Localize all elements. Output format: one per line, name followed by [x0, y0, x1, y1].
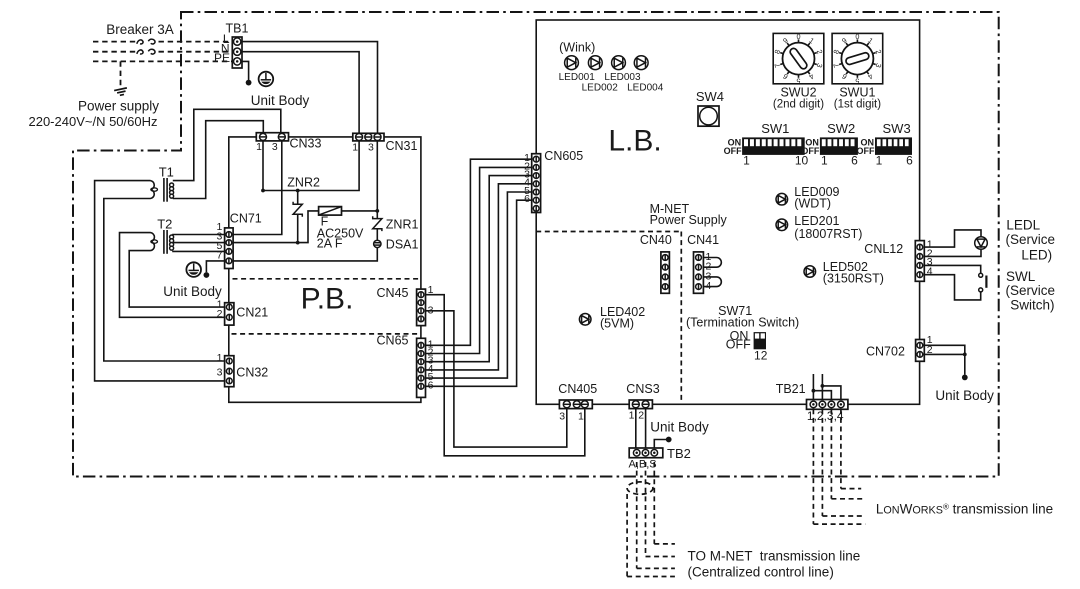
unit boundary (dash-dot border) [73, 12, 999, 477]
svg-text:SW2: SW2 [827, 121, 855, 136]
wire T2 primary bottom to CN21 pin1 [129, 251, 224, 308]
connector CN33 [256, 133, 288, 141]
svg-text:(3150RST): (3150RST) [823, 272, 884, 286]
connector CN405 [559, 400, 592, 409]
svg-text:CN405: CN405 [558, 382, 597, 396]
LonWorks transmission lines (dashed) [812, 409, 814, 524]
svg-text:1: 1 [629, 410, 635, 422]
connector CN45 [417, 289, 426, 326]
varistor ZNR2 [297, 191, 299, 204]
power line N (dashed) [93, 51, 137, 53]
svg-text:5: 5 [855, 76, 859, 85]
svg-text:6: 6 [428, 379, 434, 391]
svg-text:SWU2: SWU2 [780, 85, 816, 99]
terminal block TB1 [232, 37, 242, 68]
svg-text:(Service: (Service [1006, 283, 1056, 298]
svg-text:ZNR1: ZNR1 [386, 217, 419, 231]
svg-text:(Centralized control line): (Centralized control line) [688, 565, 834, 580]
svg-text:(Wink): (Wink) [559, 41, 595, 55]
svg-text:CN21: CN21 [236, 306, 268, 320]
svg-text:CN32: CN32 [236, 366, 268, 380]
wire CN33 pin1 down to node A [262, 141, 264, 191]
wire CN31 pin5 down through ZNR1 DSA1 to CN71 pin7 [376, 141, 378, 218]
svg-text:OFF: OFF [724, 146, 742, 156]
svg-text:SW3: SW3 [883, 121, 911, 136]
transformer T1 [151, 181, 155, 199]
svg-text:4: 4 [706, 280, 712, 292]
svg-text:7: 7 [216, 249, 222, 261]
service switch SWL symbol [979, 273, 983, 277]
svg-text:CN40: CN40 [640, 233, 672, 247]
svg-text:(WDT): (WDT) [794, 196, 831, 210]
LED003 [612, 56, 626, 70]
svg-text:Breaker 3A: Breaker 3A [106, 22, 174, 37]
svg-text:1: 1 [217, 352, 223, 364]
wire TB21 pin2 bridge to pin4 [821, 374, 823, 401]
connector CN21 [225, 303, 234, 325]
svg-text:Power Supply: Power Supply [650, 213, 728, 227]
wire CN702 pin1 [924, 345, 965, 354]
LED004 [634, 56, 648, 70]
svg-text:1: 1 [743, 153, 750, 167]
wire bundle CN65 pins 1-6 to CN605 pins 1-6 [426, 159, 532, 345]
svg-text:Power supply: Power supply [78, 98, 159, 113]
wire T1 primary bottom to CN32 pin1 [104, 199, 225, 362]
L.B. board outline [536, 20, 919, 404]
wire TB21 pin1 bridge to pin3 [812, 374, 814, 401]
svg-text:LEDL: LEDL [1006, 218, 1040, 233]
svg-text:CNS3: CNS3 [626, 382, 659, 396]
svg-text:L.B.: L.B. [608, 125, 661, 158]
svg-text:P.B.: P.B. [301, 283, 354, 316]
svg-text:5: 5 [796, 76, 800, 85]
svg-text:OFF: OFF [857, 146, 875, 156]
power line L (dashed) [93, 41, 137, 43]
wire node A to CN31 pin1 (ZNR2 bus) [263, 141, 359, 191]
svg-text:CN65: CN65 [377, 333, 409, 347]
protective earth symbol (CN71) [186, 262, 201, 277]
svg-text:(18007RST): (18007RST) [794, 227, 862, 241]
power supply ground symbol [114, 88, 128, 96]
svg-text:3: 3 [559, 410, 565, 422]
wire CN71 pin7 to unit body [206, 261, 224, 272]
LED502 (3150RST) [804, 266, 816, 278]
junction (CN702) [963, 353, 967, 357]
chassis dot (TB1 PE) [246, 80, 252, 86]
svg-text:A,B,S: A,B,S [629, 459, 657, 471]
wire T1 secondary top to CN33 pin3 [173, 109, 281, 180]
wire fuse to ZNR1/DSA1 node [342, 210, 378, 212]
chassis dot (CN71) [204, 272, 210, 278]
connector CN65 [417, 338, 426, 397]
svg-text:CN31: CN31 [386, 139, 418, 153]
svg-text:1: 1 [352, 142, 358, 154]
wire CNL12 pin3 to SWL [924, 265, 980, 273]
wire T1 secondary bottom to CN33 pin1 [173, 121, 263, 199]
wire CN45 pin3 to CN405 pin3 [426, 311, 567, 447]
junction dots TB21 [812, 389, 816, 393]
DIP switch SW1 [742, 137, 805, 155]
junction node C (ZNR2 bottom) [296, 241, 300, 245]
svg-text:LED201: LED201 [794, 214, 839, 228]
DIP switch SW3 [875, 137, 912, 155]
LED201 (18007RST) [776, 219, 788, 231]
svg-text:Unit Body: Unit Body [935, 388, 994, 403]
power line PE (dashed) [93, 60, 232, 62]
svg-text:SW4: SW4 [696, 89, 724, 104]
svg-text:LED002: LED002 [582, 82, 619, 93]
wire CNL12 pin2 to LEDL [924, 250, 981, 257]
power supply earth branch (dashed) [120, 61, 122, 87]
svg-text:1: 1 [876, 153, 883, 167]
transformer T2 [151, 233, 155, 251]
connector CN32 [225, 356, 234, 387]
chassis dot (TB2) [666, 437, 672, 443]
chassis dot (CN702) [962, 375, 968, 381]
connector CN71 [225, 228, 234, 269]
svg-text:(5VM): (5VM) [600, 316, 634, 330]
wire CN71 pin3 to fuse [233, 211, 319, 243]
svg-text:SWU1: SWU1 [839, 85, 875, 99]
wire CN33 pin3 down to CN71 pin1 [233, 141, 282, 235]
svg-text:(Service: (Service [1006, 232, 1056, 247]
svg-text:3: 3 [272, 141, 278, 153]
LED001 [565, 56, 579, 70]
svg-text:LED): LED) [1021, 247, 1052, 262]
svg-text:1: 1 [578, 410, 584, 422]
svg-text:220-240V~/N 50/60Hz: 220-240V~/N 50/60Hz [28, 114, 157, 129]
svg-text:LONWORKS® transmission line: LONWORKS® transmission line [876, 502, 1053, 517]
wire CNL12 pin1 to LEDL [924, 230, 981, 247]
svg-text:12: 12 [754, 349, 768, 363]
varistor ZNR1 [373, 216, 382, 231]
wire CNL12 pin4 to SWL [924, 275, 980, 300]
connector CNS3 [629, 400, 652, 409]
wire DSA1 to CN71 pin7 [233, 248, 377, 261]
svg-text:CN45: CN45 [377, 286, 409, 300]
svg-text:3: 3 [368, 142, 374, 154]
P.B. internal dashed separator 2 [232, 333, 420, 335]
wire CNS3 pin1 to TB2 A [635, 409, 637, 448]
junction node A [261, 189, 265, 193]
wire CN45 pin1 to CN405 pin1 [426, 295, 585, 456]
DIP switch SW2 [820, 137, 858, 155]
wire T2 secondary taps to CN71 pins 1,3,5 [172, 234, 224, 236]
svg-text:3: 3 [217, 367, 223, 379]
svg-text:1: 1 [428, 284, 434, 296]
connector CN31 [353, 133, 384, 141]
svg-text:TO M-NET transmission line: TO M-NET transmission line [688, 549, 861, 564]
wire TB1 L to CN31 [242, 42, 378, 134]
svg-text:LED001: LED001 [559, 72, 596, 83]
connector CN702 [916, 340, 925, 362]
svg-text:SWL: SWL [1006, 269, 1036, 284]
svg-text:LED004: LED004 [627, 82, 664, 93]
M-NET power supply dashed box [536, 231, 681, 233]
breaker 3A contacts [137, 40, 143, 44]
LED002 [588, 56, 602, 70]
terminal block TB21 [807, 400, 848, 410]
wire CN702 pin2 to unit body [924, 354, 965, 374]
wire T1 primary top to CN32 pin3 [95, 181, 225, 381]
wire CNS3 pin2 to TB2 B [645, 409, 647, 448]
svg-text:CN71: CN71 [230, 212, 262, 226]
LED402 (5VM) [579, 314, 591, 326]
svg-text:4: 4 [927, 265, 933, 277]
svg-text:3: 3 [428, 305, 434, 317]
svg-text:1: 1 [821, 153, 828, 167]
service LED LEDL symbol [975, 237, 988, 250]
svg-text:Switch): Switch) [1010, 297, 1054, 312]
connector CN605 [532, 154, 541, 213]
svg-text:T2: T2 [157, 216, 172, 231]
svg-text:TB21: TB21 [776, 382, 806, 396]
svg-text:6: 6 [524, 193, 530, 205]
svg-text:OFF: OFF [801, 146, 819, 156]
svg-text:Unit Body: Unit Body [650, 419, 709, 434]
P.B. board outline [229, 137, 421, 402]
svg-text:1,2,3,4: 1,2,3,4 [807, 409, 844, 423]
connector CNL12 [915, 241, 924, 282]
svg-text:(Termination Switch): (Termination Switch) [686, 316, 799, 330]
svg-text:0: 0 [796, 32, 800, 41]
arrester DSA1 [374, 240, 381, 247]
protective earth symbol (TB1) [259, 72, 274, 87]
svg-text:T1: T1 [159, 165, 174, 180]
svg-text:(2nd digit): (2nd digit) [773, 99, 824, 111]
svg-text:6: 6 [906, 153, 913, 167]
svg-text:TB2: TB2 [667, 446, 691, 461]
LED009 (WDT) [776, 193, 788, 205]
svg-text:OFF: OFF [726, 338, 751, 352]
svg-text:CN33: CN33 [290, 137, 322, 151]
svg-text:(1st digit): (1st digit) [834, 99, 881, 111]
svg-text:Unit Body: Unit Body [251, 93, 310, 108]
svg-text:DSA1: DSA1 [386, 237, 419, 251]
svg-text:ZNR2: ZNR2 [287, 175, 320, 189]
svg-text:Unit Body: Unit Body [163, 284, 222, 299]
junction node D [375, 209, 379, 213]
junction node B (ZNR2 top) [296, 189, 300, 193]
terminal block TB2 [629, 448, 663, 458]
P.B. internal dashed separator 1 [233, 278, 420, 280]
svg-text:2: 2 [638, 410, 644, 422]
wire TB2 S to unit body [654, 440, 666, 449]
svg-text:2: 2 [927, 344, 933, 356]
fuse F AC250V 2A [319, 207, 342, 216]
svg-text:LED003: LED003 [604, 72, 641, 83]
M-NET transmission cable (dashed) [627, 482, 653, 494]
svg-text:CNL12: CNL12 [864, 242, 903, 256]
wire T2 primary top to CN21 pin2 [120, 233, 225, 318]
svg-text:2: 2 [217, 308, 223, 320]
svg-text:CN41: CN41 [687, 233, 719, 247]
rotary switch SWU1 [831, 32, 883, 85]
svg-text:CN605: CN605 [544, 149, 583, 163]
svg-text:CN702: CN702 [866, 344, 905, 358]
svg-text:SW1: SW1 [761, 121, 789, 136]
svg-text:0: 0 [855, 32, 859, 41]
svg-text:2A F: 2A F [317, 236, 343, 250]
wire TB1 PE to unit body [242, 61, 249, 80]
rotary switch SWU2 [772, 32, 824, 85]
svg-text:PE: PE [214, 51, 230, 65]
wire TB1 N to CN31 [242, 52, 359, 134]
svg-text:1: 1 [256, 141, 262, 153]
